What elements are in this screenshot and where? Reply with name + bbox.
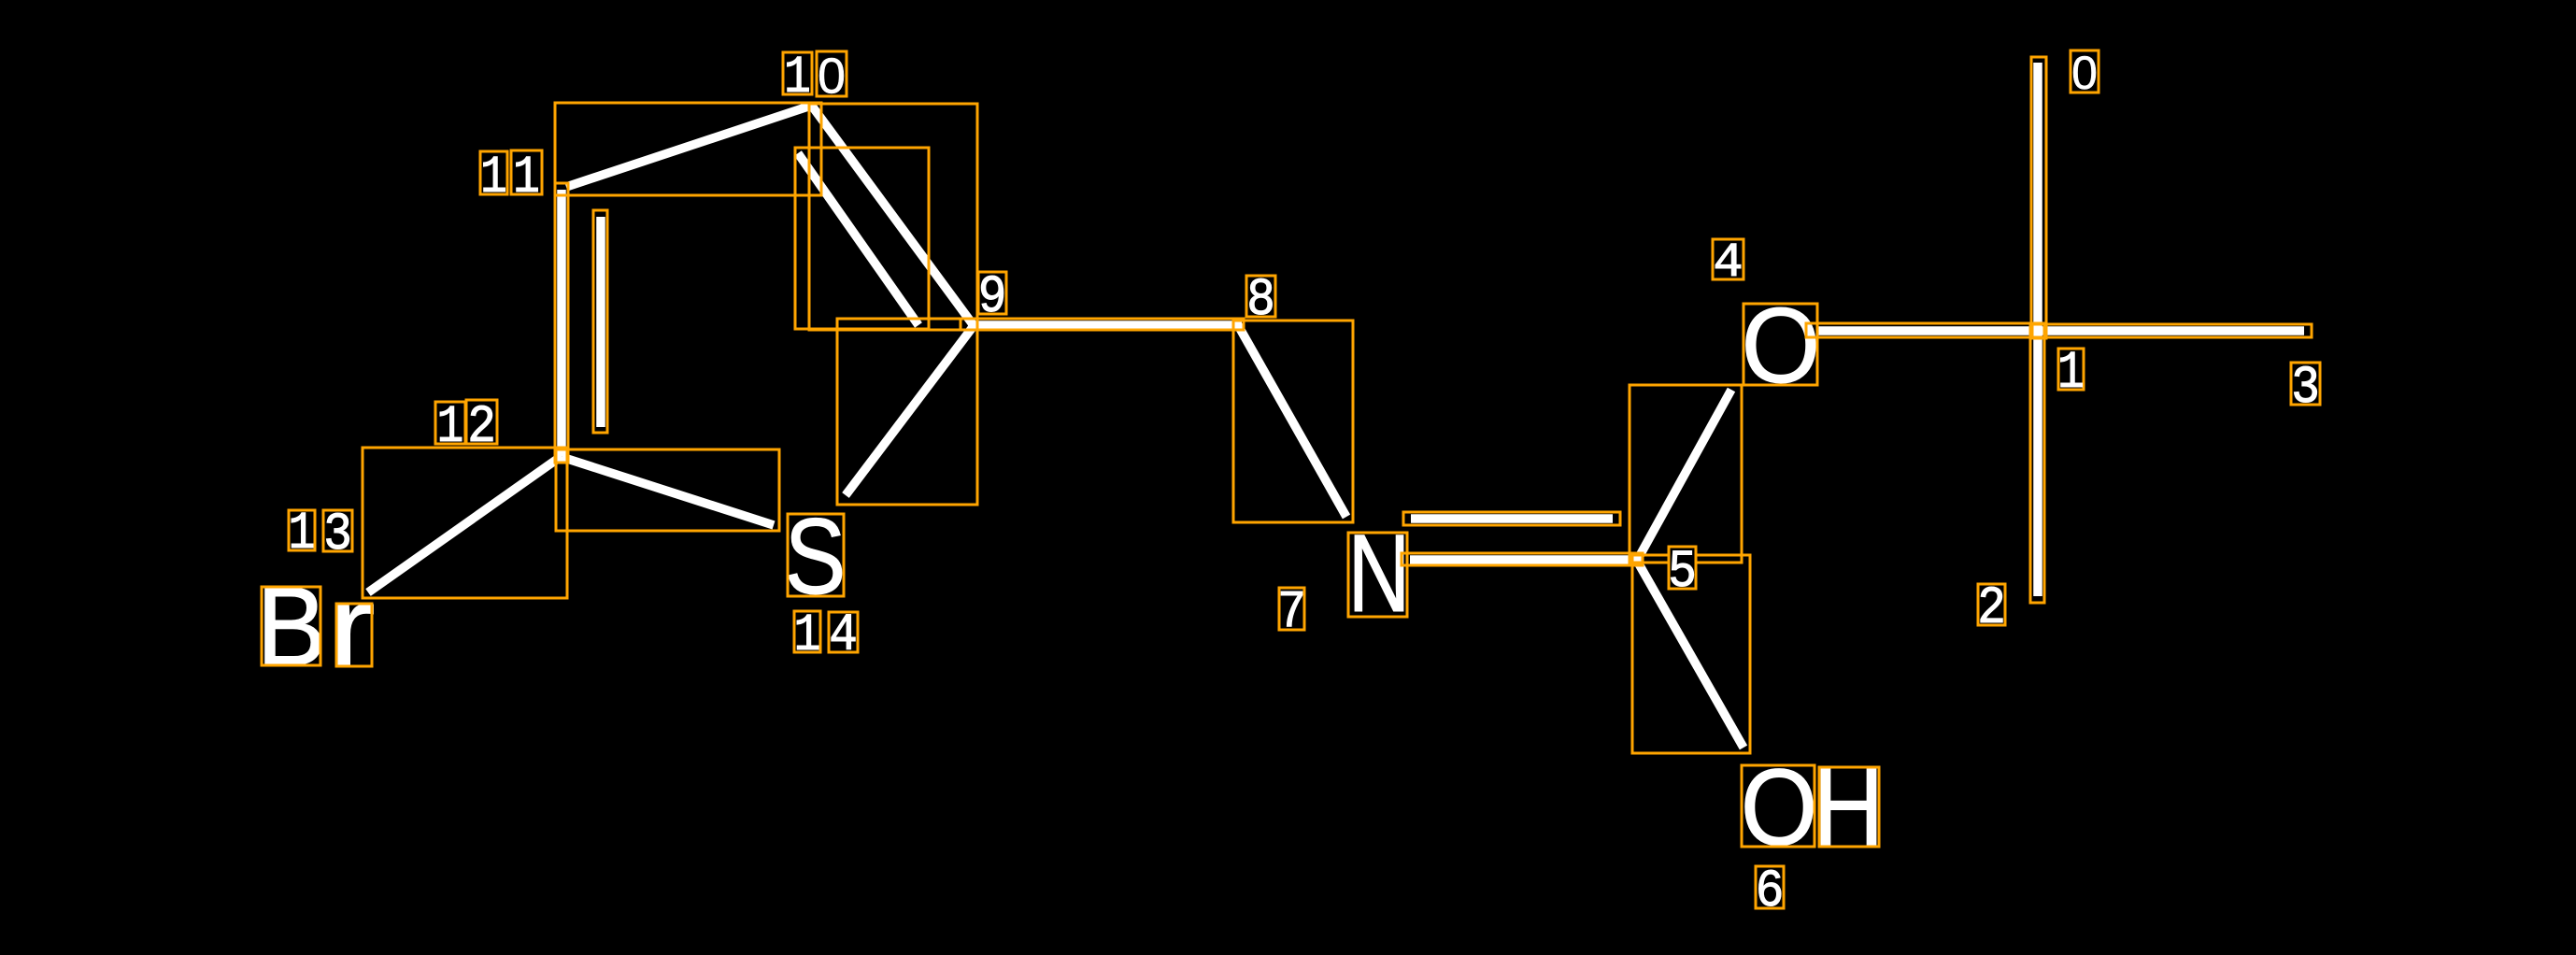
bbox bond 1 (1806, 323, 2046, 337)
label 6 (1756, 866, 1784, 908)
svg-text:6: 6 (1756, 862, 1785, 922)
label 14 digit 1 (794, 611, 820, 652)
svg-text:2: 2 (1977, 579, 2006, 639)
bond N7=C5 lower line (1410, 555, 1641, 564)
svg-text:3: 3 (2291, 359, 2320, 419)
svg-text:1: 1 (2057, 343, 2085, 403)
label 13 digit 3 (323, 510, 352, 551)
bbox bond 11=12 main (555, 183, 568, 463)
bond C1-C0/C2 vertical line (2033, 63, 2042, 596)
label 11 digit 1a (480, 151, 507, 194)
bbox bond 8-7 (1233, 321, 1353, 522)
bond C12-S14 (562, 457, 774, 525)
bond C5-O6 (1637, 561, 1743, 748)
svg-text:r: r (327, 563, 376, 691)
svg-text:4: 4 (829, 606, 858, 666)
svg-text:1: 1 (794, 606, 821, 665)
bbox atom Br13 r (336, 604, 372, 666)
bbox bond 7=5 upper (1403, 512, 1620, 525)
label 4 (1713, 239, 1743, 279)
svg-text:8: 8 (1246, 271, 1275, 331)
bbox bond 9-8 (961, 319, 1244, 330)
bbox bond 10-11 (555, 103, 821, 195)
label 8 (1246, 276, 1275, 317)
label 10 digit 0 (817, 51, 847, 96)
bond C10-C11 (566, 106, 811, 187)
bond O4-C1-C3 horizontal line (1817, 326, 2304, 335)
bbox bond 5-6 (1632, 555, 1750, 753)
label 1 (2058, 349, 2084, 390)
bbox bond 10=9 main (809, 104, 977, 330)
svg-text:1: 1 (513, 148, 540, 207)
svg-text:0: 0 (818, 49, 846, 105)
bond C11=C12 inner line (596, 217, 605, 427)
svg-text:3: 3 (323, 506, 352, 565)
label 14 digit 4 (829, 612, 858, 652)
label 11 digit 1b (511, 150, 542, 194)
svg-text:B: B (257, 563, 327, 689)
bbox bond 12-13 (363, 448, 567, 598)
bbox bond 10=9 inner (795, 148, 929, 329)
svg-text:1: 1 (289, 504, 316, 563)
svg-text:4: 4 (1713, 235, 1743, 291)
bbox atom Br13 B (262, 587, 320, 665)
bbox bond 4-5 (1630, 385, 1742, 563)
bbox bond 2 (2030, 323, 2044, 603)
bbox atom N7 (1348, 533, 1407, 617)
label 9 (978, 272, 1006, 314)
bond N7=C5 upper line (1411, 514, 1613, 523)
svg-text:7: 7 (1277, 583, 1306, 643)
bbox atom O6 H (1819, 767, 1879, 847)
bbox bond 0 (2031, 57, 2046, 338)
bond O4-C5 (1637, 390, 1731, 561)
svg-text:0: 0 (2071, 47, 2098, 99)
svg-text:1: 1 (437, 397, 464, 457)
svg-text:9: 9 (978, 268, 1007, 328)
bond C8-N7 (1238, 325, 1346, 517)
bbox bond 7=5 lower (1402, 553, 1643, 565)
bond C9-C8 (968, 321, 1242, 330)
bond C9-S14 (846, 327, 973, 495)
label 13 digit 1 (289, 510, 315, 550)
label 7 (1279, 588, 1304, 630)
bond C10=C9 inner line (798, 153, 918, 325)
label 12 digit 2 (466, 400, 497, 444)
bbox bond 3 (2032, 324, 2312, 337)
label 3 (2291, 363, 2320, 405)
svg-text:1: 1 (480, 148, 507, 207)
bond C10=C9 main line (811, 105, 973, 324)
bbox atom O6 O (1742, 765, 1815, 847)
bbox bond 12-14 (556, 449, 779, 531)
svg-text:1: 1 (784, 48, 811, 107)
label 0 (2071, 50, 2099, 93)
bond C12-Br13 (368, 456, 562, 592)
bond C11=C12 main line (557, 190, 566, 456)
svg-text:H: H (1813, 746, 1884, 869)
bbox atom O4 (1743, 304, 1817, 385)
label 10 digit 1 (783, 52, 812, 94)
svg-text:2: 2 (467, 398, 496, 458)
bbox atom S14 (788, 514, 844, 596)
label 5 (1669, 547, 1696, 589)
label 2 (1978, 584, 2005, 625)
label 12 digit 1 (435, 402, 465, 444)
bbox bond 11=12 inner (593, 210, 607, 433)
svg-text:5: 5 (1668, 543, 1697, 603)
bbox bond 9-14 (837, 319, 977, 505)
